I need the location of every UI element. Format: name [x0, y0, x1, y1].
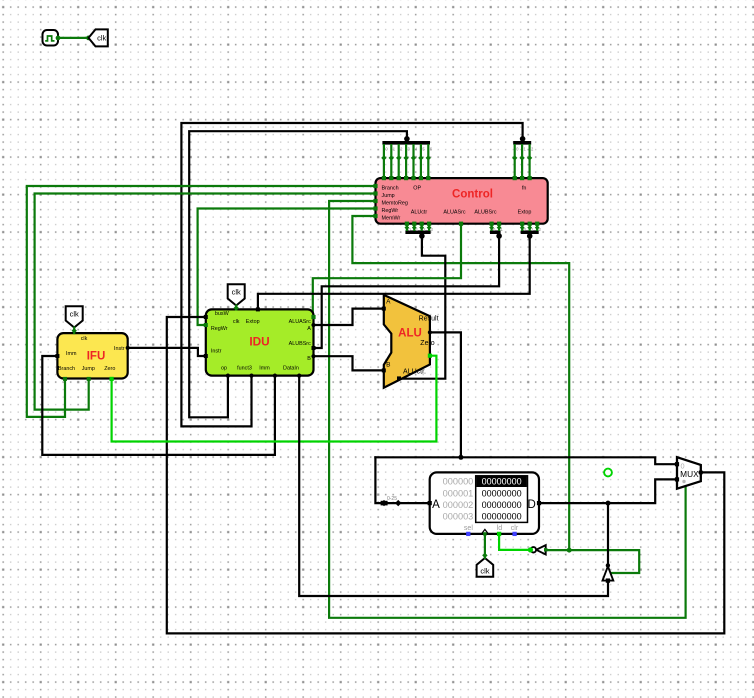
- wire D (RAM.D to MUX input 1): [539, 479, 677, 503]
- svg-text:A: A: [432, 499, 440, 511]
- svg-text:Branch: Branch: [58, 366, 75, 372]
- wire Result bus row: [375, 457, 677, 464]
- svg-text:IDU: IDU: [249, 335, 269, 349]
- wire RegWr net: [198, 209, 376, 326]
- svg-text:000001: 000001: [443, 488, 474, 498]
- svg-text:busW: busW: [215, 311, 230, 317]
- splitter ALUBSrc (2-bit): [489, 224, 503, 239]
- svg-text:00000000: 00000000: [482, 477, 522, 487]
- wire B (IDU.B to ALU.B): [314, 356, 384, 370]
- svg-text:sel: sel: [464, 525, 473, 532]
- wire Instr (IFU to IDU): [128, 348, 206, 356]
- svg-text:A: A: [386, 298, 391, 305]
- svg-text:ALUctr: ALUctr: [411, 210, 428, 216]
- svg-text:MemWr: MemWr: [382, 215, 401, 221]
- svg-text:IFU: IFU: [87, 350, 106, 362]
- splitter fn (3-bit): [512, 136, 534, 180]
- svg-text:fn: fn: [522, 185, 527, 191]
- wire busW (MUX output to IDU.busW): [167, 317, 725, 633]
- wire funct3 bus (IDU.funct3 to fn splitter): [181, 123, 522, 426]
- wire ALUctr net: [401, 234, 446, 379]
- svg-text:0: 0: [680, 461, 684, 470]
- wire DataIn (IDU.DataIn to buffer): [299, 376, 608, 596]
- tunnel clk (RAM): [477, 558, 494, 577]
- node D junction: [606, 501, 611, 506]
- wire ALUBSrc net: [314, 234, 500, 349]
- svg-text:00000000: 00000000: [482, 512, 522, 522]
- wire Jump net: [35, 194, 376, 410]
- svg-text:Imm: Imm: [259, 366, 270, 372]
- multiplexer MUX: [675, 457, 703, 489]
- control unit Control: [373, 176, 547, 226]
- svg-text:Jump: Jump: [82, 366, 95, 372]
- svg-text:Imm: Imm: [66, 351, 77, 357]
- svg-text:Instr: Instr: [114, 346, 125, 352]
- wire address (Result to RAM.A): [375, 457, 429, 503]
- svg-text:Control: Control: [452, 188, 493, 200]
- svg-text:ALUBSrc: ALUBSrc: [289, 341, 311, 347]
- wire clk tunnel to IFU: [72, 328, 77, 334]
- splitter ALUctr (4-bit): [405, 224, 434, 239]
- svg-text:Branch: Branch: [382, 185, 399, 191]
- svg-text:Result: Result: [419, 315, 439, 322]
- svg-text:000000: 000000: [443, 477, 474, 487]
- svg-text:clr: clr: [511, 525, 519, 532]
- svg-text:MUX: MUX: [680, 469, 699, 479]
- wire RAM clock: [482, 534, 487, 558]
- wire MemtoReg net (to MUX select): [329, 201, 685, 618]
- wire Imm (IDU.Imm to IFU.Imm): [42, 356, 275, 455]
- wire ALUASrc net: [313, 224, 461, 316]
- svg-text:Instr: Instr: [211, 349, 222, 355]
- wire Extop net: [258, 234, 530, 310]
- wire MemWr net: [352, 216, 569, 550]
- svg-text:clk: clk: [480, 566, 489, 575]
- svg-text:ALUASrc: ALUASrc: [443, 210, 465, 216]
- svg-text:Zero: Zero: [104, 366, 115, 372]
- node Result junction: [458, 455, 463, 460]
- svg-text:00000000: 00000000: [482, 488, 522, 498]
- clock generator CLK: [43, 30, 61, 46]
- node MemWr junction: [567, 548, 572, 553]
- svg-text:A: A: [307, 326, 311, 332]
- wire buffer output to D bus: [607, 503, 609, 565]
- svg-text:clk: clk: [233, 319, 240, 325]
- ALU: [382, 295, 439, 388]
- svg-text:ALU: ALU: [398, 327, 422, 339]
- svg-text:ALUctr.: ALUctr.: [403, 369, 426, 376]
- svg-text:ALUBSrc: ALUBSrc: [474, 210, 496, 216]
- wire Result (ALU to address/MUX): [430, 332, 461, 457]
- block IFU: [55, 333, 129, 381]
- svg-text:Extop: Extop: [246, 319, 260, 325]
- svg-text:00000000: 00000000: [482, 500, 522, 510]
- splitter OP (7-bit): [381, 136, 433, 180]
- wire Branch net: [27, 186, 376, 417]
- svg-text:B: B: [307, 356, 311, 362]
- svg-text:000003: 000003: [443, 512, 474, 522]
- svg-text:DataIn: DataIn: [283, 366, 299, 372]
- svg-text:ALUASrc: ALUASrc: [289, 319, 311, 325]
- svg-text:D: D: [528, 499, 536, 511]
- controlled buffer (tri-state): [603, 563, 614, 583]
- svg-text:000002: 000002: [443, 500, 474, 510]
- svg-text:MemtoReg: MemtoReg: [382, 200, 408, 206]
- wire op bus (IDU.op to OP splitter): [189, 131, 407, 417]
- wire clk tunnel to IDU: [234, 305, 239, 310]
- svg-text:Extop: Extop: [518, 210, 532, 216]
- wire A (IDU.A to ALU.A): [314, 309, 384, 325]
- tunnel clk (clock net, source): [89, 29, 108, 46]
- splitter bit extender 0-25 on address wire: [381, 496, 402, 507]
- wire clock to clk tunnel: [58, 36, 91, 41]
- svg-text:clk: clk: [97, 34, 106, 43]
- svg-text:clk: clk: [70, 310, 79, 319]
- splitter Extop (3-bit): [520, 224, 542, 239]
- block IDU: [204, 307, 316, 377]
- svg-text:ld: ld: [497, 525, 503, 532]
- svg-text:funct3: funct3: [237, 366, 252, 372]
- output probe O: [604, 469, 612, 477]
- svg-text:Zero: Zero: [420, 340, 435, 347]
- memory RAM: [428, 472, 542, 536]
- svg-text:clk: clk: [81, 336, 88, 342]
- svg-text:op: op: [221, 366, 227, 372]
- tunnel clk (IDU): [228, 284, 245, 305]
- svg-text:OP: OP: [413, 185, 421, 191]
- svg-text:B: B: [386, 362, 390, 369]
- svg-text:0-25: 0-25: [387, 496, 397, 502]
- svg-text:RegWr: RegWr: [382, 208, 399, 214]
- wire MemWr to NOT gate and buffer enable: [546, 550, 640, 573]
- svg-text:RegWr: RegWr: [211, 326, 228, 332]
- svg-text:clk: clk: [232, 288, 241, 297]
- tunnel clk (IFU): [66, 306, 83, 327]
- svg-text:Jump: Jump: [382, 193, 395, 199]
- wire ld (RAM.ld to NOT gate): [499, 534, 530, 550]
- NOT gate: [528, 545, 548, 554]
- wire Zero (ALU.Zero to IFU.Zero): [112, 356, 437, 442]
